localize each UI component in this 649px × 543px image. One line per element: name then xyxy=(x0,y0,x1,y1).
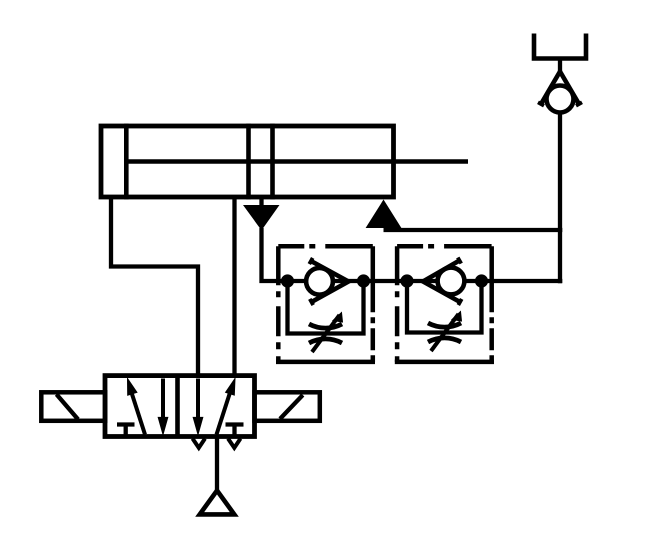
wire: cylinder left port to valve port 4 xyxy=(111,197,198,378)
check valve 3 circle xyxy=(547,86,574,113)
check valve 1 seat (V, apex right) xyxy=(311,261,349,302)
flow direction arrow (down, filled) xyxy=(244,206,279,230)
valve right chamber diagonal arrow (1 to 2) xyxy=(217,391,231,435)
check valve 1 seat end ticks xyxy=(309,258,312,264)
cylinder piston line 1 xyxy=(246,124,251,200)
wire: main line through flow control 1 xyxy=(288,279,364,283)
wire: right riser xyxy=(558,110,562,283)
stub: funnel to check valve xyxy=(558,59,562,75)
cylinder left end-cap line xyxy=(124,124,129,200)
junction dot (FC2 left) xyxy=(400,274,413,287)
pilot actuator left (rect with diagonal) xyxy=(41,392,105,421)
wire: cylinder mid port to valve port 2 xyxy=(232,197,236,378)
flow direction arrow (up, filled) xyxy=(367,201,401,228)
flow control 1 bypass (throttle branch) xyxy=(288,281,364,334)
valve left chamber down arrow xyxy=(161,379,165,421)
intake triangle (open, apex up) xyxy=(200,491,235,515)
check valve 2 seat end ticks xyxy=(458,258,461,264)
wire: down arrow to flow control 1 inlet xyxy=(262,228,288,281)
wire: flow control 2 to right riser xyxy=(482,279,563,283)
junction dot (FC2 right) xyxy=(475,274,488,287)
check valve 2 circle xyxy=(438,268,465,295)
valve left chamber blocked port T xyxy=(117,422,135,426)
throttle 2 (adjustable) xyxy=(428,312,462,352)
check valve 1 circle xyxy=(306,268,333,295)
exhaust chevron port 5 xyxy=(193,439,206,448)
cylinder 1A (double-acting) body xyxy=(101,126,394,197)
check valve 3 seat end ticks xyxy=(538,102,544,105)
wire: between flow control valves xyxy=(364,279,408,283)
wire: main line through flow control 2 xyxy=(407,279,482,283)
5/2-way valve body xyxy=(105,376,255,437)
junction dot (FC1 left) xyxy=(281,274,294,287)
wire: valve port 1 down xyxy=(215,437,219,493)
cylinder piston line 2 xyxy=(270,124,275,200)
wire: up arrow to right riser xyxy=(384,228,563,232)
pilot actuator right (rect with diagonal) xyxy=(255,392,320,421)
exhaust chevron port 3 xyxy=(228,439,241,448)
valve chamber divider xyxy=(175,376,180,437)
exhaust funnel (U shape) xyxy=(534,34,586,59)
flow control valve 2 enclosure (dash-dot) xyxy=(395,246,494,362)
check valve 3 seat (V, apex up) xyxy=(541,72,579,105)
valve right chamber down arrow (4 to 5) xyxy=(196,379,200,421)
junction dot (FC1 right) xyxy=(357,274,370,287)
wire: stub to down flow-arrow xyxy=(259,197,263,208)
cylinder piston rod xyxy=(126,159,468,164)
valve left chamber diagonal arrow xyxy=(131,391,145,435)
check valve 2 seat (V, apex left) xyxy=(423,261,460,303)
valve right chamber blocked port T xyxy=(226,422,244,426)
throttle 1 (adjustable) xyxy=(309,313,343,353)
flow control valve 1 enclosure (dash-dot) xyxy=(276,246,375,362)
flow control 2 bypass (throttle branch) xyxy=(407,281,482,333)
